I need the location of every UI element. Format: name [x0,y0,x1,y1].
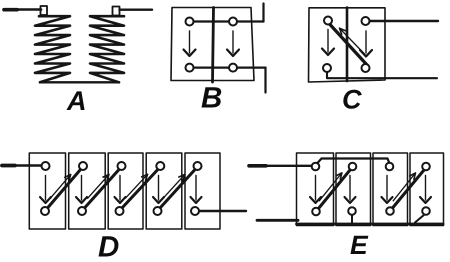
arrow down D3 [119,176,121,201]
svg-text:E: E [350,230,369,260]
wire lead-in left of E [249,165,312,167]
node circle D1 bottom [41,207,49,215]
stub E4 bottom circle to rail [415,215,425,223]
current arrow on diagonal D4-D5 [163,174,185,198]
node circle C bottom-right [362,64,370,72]
wire lead-out top right C [370,20,439,22]
current arrow on diagonal E1-E2 [319,173,342,201]
node circle E3 top [386,163,394,171]
wire bottom lead E [257,219,298,222]
svg-text:D: D [98,231,119,262]
wire bottom stub from C bottom-left [327,72,437,78]
coil L1 left winding [35,16,70,82]
wire lead-in left of A [4,8,41,11]
node circle B bottom-left [186,64,194,72]
node circle D1 top [42,162,50,170]
wire lead-in left of D [2,164,41,167]
arrow down D4 [158,176,160,201]
wire top jumper E1 to E3 [317,159,389,164]
current arrow on diagonal C [340,28,366,54]
arrow down E4 [425,176,427,201]
coil jumper diagonal D2-D3 [85,170,120,209]
node circle D3 top [118,162,126,170]
box D5 [185,153,220,229]
box E1 [297,153,334,226]
arrow down C right [365,31,367,53]
svg-text:C: C [342,85,362,115]
coil jumper diagonal E1-E2 [319,170,351,209]
node circle D3 bottom [116,207,124,215]
wire top hook up B [262,4,264,22]
current arrow on diagonal D2-D3 [88,174,109,198]
node circle C top-right [362,17,370,25]
terminal square left (A) [41,6,48,15]
node circle B bottom-right [229,64,237,72]
wire bottom rail joining coils [40,81,119,83]
arrow down D5 [195,176,197,201]
arrow down D2 [81,176,83,201]
divider wall B [213,8,214,83]
wire lead-out right of A [120,8,153,10]
divider wall C [346,8,349,82]
node circle E2 top [349,163,357,171]
box outline C [309,8,386,82]
coil jumper diagonal D1-D2 [48,170,81,209]
box D2 [69,153,106,229]
wire bottom hook down B [264,68,266,93]
node circle E4 bottom [422,207,430,215]
node circle E1 top [312,163,320,171]
node circle B top-left [186,18,194,26]
node circle E2 bottom [348,207,356,215]
node circle E3 bottom [386,207,394,215]
node circle D4 top [156,162,164,170]
arrow down E1 [315,176,317,201]
current arrow on diagonal D3-D4 [125,174,147,198]
node circle D4 bottom [154,207,162,215]
node circle C top-left [324,17,332,25]
terminal square right (A) [113,7,120,16]
coil L2 right winding [90,16,124,82]
coil jumper diagonal E3-E4 [393,170,425,208]
svg-text:B: B [201,82,222,115]
wire bottom bus B [190,66,266,68]
arrow down E2 [349,176,351,201]
arrow down D1 [45,176,47,201]
box D1 [29,153,65,229]
node circle D5 bottom [191,207,199,215]
coil jumper diagonal C [330,25,368,66]
node circle E1 bottom [312,208,320,216]
svg-text:A: A [66,86,87,116]
box E2 [336,153,371,226]
node circle E4 top [422,163,430,171]
box E4 [410,153,444,226]
current arrow on diagonal D1-D2 [50,175,70,199]
node circle D2 bottom [78,207,86,215]
arrow down B left [189,31,191,53]
box D3 [108,153,143,229]
node circle C bottom-left [323,64,331,72]
node circle D2 top [79,162,87,170]
wire bottom rail band E [297,223,444,226]
wire lead-out right of D [200,210,247,212]
box E3 [373,153,408,226]
box D4 [146,153,182,229]
arrow down E3 [386,176,388,201]
arrow down C left [327,30,329,53]
box outline B [171,8,254,81]
current arrow on diagonal E3-E4 [393,173,415,201]
coil jumper diagonal D4-D5 [160,170,195,209]
node circle B top-right [229,18,237,26]
wire top bus B [190,20,264,22]
node circle D5 top [194,162,202,170]
arrow down B right [232,31,234,53]
coil jumper diagonal D3-D4 [122,170,158,209]
stub E2 bottom circle to rail [351,215,353,224]
